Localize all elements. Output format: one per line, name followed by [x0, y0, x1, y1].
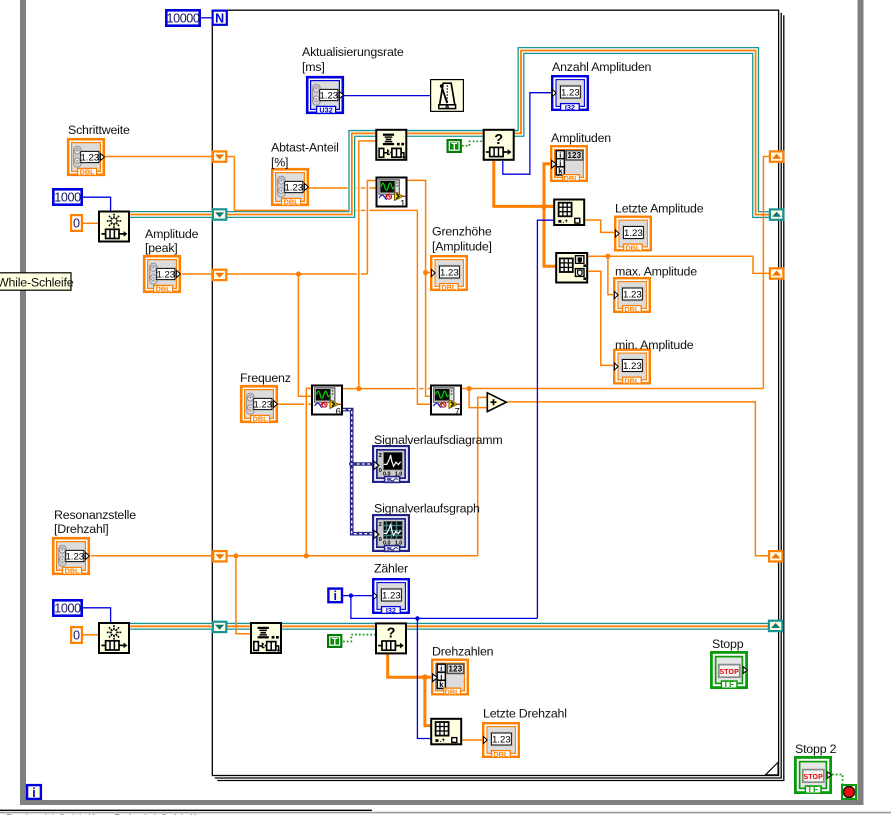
wire W1 Schrittweite to VI7 [104, 156, 234, 158]
svg-text:Stopp 2: Stopp 2 [795, 742, 837, 756]
svg-text:STOP: STOP [720, 669, 740, 676]
dynamic data wire (VI6 to waveform chart+graph) [343, 410, 375, 534]
svg-text:0: 0 [379, 537, 382, 543]
obtain queue 1 [99, 212, 129, 242]
svg-text:Signalverlaufsgraph: Signalverlaufsgraph [374, 502, 480, 516]
svg-text:Frequenz: Frequenz [240, 371, 291, 385]
svg-text:123: 123 [449, 665, 463, 674]
wire T constant 2 to dequeue2 [343, 635, 375, 642]
constant 0 (bottom) [71, 627, 82, 643]
svg-text:1.23: 1.23 [319, 90, 338, 101]
wire T constant 1 to dequeue1 [462, 141, 483, 146]
svg-text:TF: TF [723, 680, 735, 689]
wire W2 Amplitude [peak] to VI1/VI6 [182, 273, 357, 275]
wire W14 index array 2 to Letzte Drehzahl [462, 739, 482, 741]
dequeue 2 [376, 623, 406, 653]
wire W5 VI6 output to VI7 and enqueue element [343, 388, 415, 390]
svg-text:Amplituden: Amplituden [551, 131, 611, 145]
indicator max. Amplitude [614, 278, 650, 314]
svg-text:min. Amplitude: min. Amplitude [615, 338, 694, 352]
svg-text:1.23: 1.23 [623, 290, 642, 301]
while loop border (gray) [20, 0, 26, 805]
wait metronome [431, 80, 464, 112]
svg-text:I32: I32 [565, 103, 575, 112]
svg-text:Stopp: Stopp [712, 637, 744, 651]
svg-text:Grenzhöhe: Grenzhöhe [432, 225, 492, 239]
svg-text:DBL: DBL [253, 415, 269, 424]
shift register left orange (Resonanzstelle) [213, 551, 226, 561]
svg-text:I32: I32 [386, 606, 396, 615]
svg-text:.+: .+ [440, 737, 446, 744]
svg-text:DBL: DBL [284, 198, 300, 207]
while loop name label [0, 273, 74, 290]
for loop count terminal N [213, 11, 227, 26]
wire W3 Resonanzstelle row [91, 555, 478, 557]
constant 1000 (bottom) [53, 600, 81, 615]
svg-text:0: 0 [379, 468, 382, 474]
svg-text:?: ? [494, 132, 503, 148]
wire 1000 to initialize 1 [83, 197, 111, 210]
indicator Grenzhoehe [Amplitude] [431, 256, 467, 292]
while loop iteration terminal i [27, 785, 41, 800]
svg-text:Signalverlaufsdiagramm: Signalverlaufsdiagramm [374, 433, 503, 447]
svg-text:DBL: DBL [65, 567, 81, 576]
svg-text:123: 123 [568, 151, 582, 160]
wire Abtast-Anteil to VI1 [308, 187, 348, 189]
svg-text:1.23: 1.23 [561, 88, 580, 99]
wire W11 max output [588, 256, 769, 273]
array max min [556, 253, 587, 283]
svg-text:i: i [334, 589, 337, 603]
svg-text:i: i [32, 786, 35, 800]
svg-text:TF: TF [807, 785, 819, 794]
indicator Letzte Drehzahl [483, 723, 519, 759]
svg-text:Amplitude: Amplitude [145, 227, 199, 241]
svg-text:Schrittweite: Schrittweite [68, 123, 130, 137]
svg-text:1.23: 1.23 [80, 152, 99, 163]
indicator Anzahl Amplituden I32 [552, 76, 588, 112]
constant 0 (top) [71, 215, 82, 231]
svg-text:DBL: DBL [564, 174, 580, 183]
svg-text:1000: 1000 [54, 602, 81, 616]
shift register right teal (queue 1) [770, 209, 783, 219]
svg-text:1: 1 [400, 198, 405, 209]
svg-text:1.23: 1.23 [253, 399, 272, 410]
queue wire Q1 (obtain queue to enqueue/dequeue, top loop) [130, 133, 376, 214]
shift register right orange (VI7 out) [770, 151, 783, 161]
svg-text:1.23: 1.23 [492, 735, 511, 746]
T constant 2 [328, 635, 341, 648]
indicator Amplituden array [551, 146, 587, 183]
svg-text:[Drehzahl]: [Drehzahl] [54, 522, 108, 536]
shift register right orange (max) [770, 268, 783, 278]
dequeue 1 [484, 130, 514, 160]
svg-text:Drehzahlen: Drehzahlen [432, 645, 494, 659]
svg-text:Letzte Amplitude: Letzte Amplitude [615, 202, 704, 216]
svg-text:1.23: 1.23 [156, 269, 175, 280]
svg-text:Anzahl Amplituden: Anzahl Amplituden [552, 60, 652, 74]
svg-text:2: 2 [379, 522, 382, 528]
control Frequenz [241, 386, 277, 423]
shift register left teal (queue 1) [213, 209, 226, 219]
indicator Drehzahlen array [432, 660, 468, 697]
svg-text:[Amplitude]: [Amplitude] [432, 240, 492, 254]
svg-text:T: T [332, 637, 338, 648]
svg-text:.+: .+ [563, 218, 569, 225]
svg-text:While-Schleife: While-Schleife [0, 275, 74, 289]
wire iteration i to Zaehler / index inputs [343, 595, 373, 597]
shift register left orange (Amplitude) [213, 270, 226, 280]
while loop condition terminal (stop sign) [842, 785, 856, 799]
wire W8 add output to right shift register [507, 402, 768, 556]
waveform chart Signalverlaufsdiagramm [373, 446, 409, 483]
queue wire Q2 (bottom loop) [130, 623, 768, 630]
svg-text:Zähler: Zähler [374, 562, 408, 576]
control Amplitude [peak] [144, 256, 180, 293]
svg-text:1000: 1000 [54, 191, 81, 205]
waveform graph Signalverlaufsgraph [373, 515, 409, 552]
wire 1000 to initialize 2 [82, 608, 111, 622]
svg-text:1.23: 1.23 [623, 361, 642, 372]
svg-text:7: 7 [455, 406, 460, 417]
svg-text:0: 0 [73, 629, 80, 643]
express VI 6 simulate signal [312, 386, 342, 417]
svg-text:DBL: DBL [493, 750, 509, 759]
wire W10 index array 1 to Letzte Amplitude [585, 220, 614, 232]
control Aktualisierungsrate [ms] U32 [307, 77, 343, 114]
wire 10000 to N [201, 17, 212, 19]
express VI 1 amplitude measurement [377, 178, 407, 209]
svg-text:2: 2 [379, 453, 382, 459]
control Schrittweite [68, 139, 104, 176]
svg-text:Letzte Drehzahl: Letzte Drehzahl [483, 707, 567, 721]
svg-text:?: ? [387, 625, 396, 641]
svg-text:STOP: STOP [804, 774, 824, 781]
wire W9 dequeue1 output array (thick) [494, 161, 554, 207]
svg-text:Aktualisierungsrate: Aktualisierungsrate [302, 45, 404, 59]
indicator Letzte Amplitude [615, 217, 651, 253]
control Resonanzstelle [Drehzahl] [53, 538, 89, 575]
svg-text:0: 0 [73, 217, 80, 231]
svg-text:10000: 10000 [166, 12, 199, 26]
index array 1 [554, 200, 584, 226]
wire W6 VI1 output to Grenzhoehe and VI7 [407, 180, 430, 396]
T constant 1 [448, 140, 461, 153]
svg-text:[peak]: [peak] [145, 241, 178, 255]
svg-text:U32: U32 [319, 106, 332, 115]
svg-text:DBL: DBL [445, 687, 461, 696]
index array 2 [431, 719, 461, 745]
wire W13 dequeue2 output array (thick) [388, 654, 431, 677]
svg-text:1.23: 1.23 [440, 268, 459, 279]
svg-text:1.23: 1.23 [65, 551, 84, 562]
svg-text:N: N [215, 12, 224, 26]
svg-text:1.23: 1.23 [624, 228, 643, 239]
wire 0 to initialize 2 [83, 634, 98, 636]
wire W12 min output [588, 271, 613, 365]
svg-text:1.23: 1.23 [382, 591, 401, 602]
wire 0 to initialize 1 [83, 222, 98, 224]
for loop corner fold [766, 762, 779, 775]
dynamic wire junction [349, 461, 354, 466]
for loop iteration terminal i [328, 589, 342, 604]
enqueue 2 [251, 623, 281, 653]
obtain queue 2 [99, 623, 129, 653]
constant 10000 [166, 10, 200, 25]
express VI 7 amplitude measurement [431, 386, 461, 417]
wire W4 Frequenz to VI6 [278, 403, 305, 405]
indicator min. Amplitude [614, 350, 650, 386]
svg-text:1.23: 1.23 [284, 182, 303, 193]
svg-text:6: 6 [336, 406, 341, 417]
wire Stopp 2 to loop condition [832, 775, 843, 784]
svg-text:Abtast-Anteil: Abtast-Anteil [271, 141, 339, 155]
shift register right orange (add out) [769, 551, 782, 561]
svg-text:[%]: [%] [271, 156, 288, 170]
add function [487, 393, 506, 412]
constant 1000 (top) [53, 189, 81, 204]
shift register left teal (queue 2) [213, 622, 226, 632]
shift register left orange (Schrittweite) [213, 151, 226, 161]
svg-text:Resonanzstelle: Resonanzstelle [54, 508, 136, 522]
boolean Stopp [711, 652, 747, 689]
svg-text:DBL: DBL [441, 283, 457, 292]
svg-text:DBL: DBL [625, 243, 641, 252]
enqueue 1 [376, 130, 406, 160]
boolean Stopp 2 [795, 757, 831, 794]
svg-text:DBL: DBL [624, 305, 640, 314]
svg-text:T: T [451, 142, 457, 153]
shift register right teal (queue 2) [769, 621, 782, 631]
for loop border [212, 10, 778, 775]
wire W7 VI7 output to right shift register and add [462, 388, 763, 390]
bottom window edge [0, 809, 372, 811]
indicator Zaehler I32 [373, 579, 409, 615]
svg-text:DBL: DBL [156, 285, 172, 294]
svg-text:max. Amplitude: max. Amplitude [615, 265, 697, 279]
wire dequeue1 count to Anzahl Amplituden [503, 93, 552, 175]
control Abtast-Anteil [%] [272, 169, 308, 206]
svg-text:DBL: DBL [624, 376, 640, 385]
svg-text:[ms]: [ms] [302, 60, 325, 74]
svg-text:DBL: DBL [80, 168, 96, 177]
wire Aktualisierungsrate to metronome [343, 95, 430, 97]
